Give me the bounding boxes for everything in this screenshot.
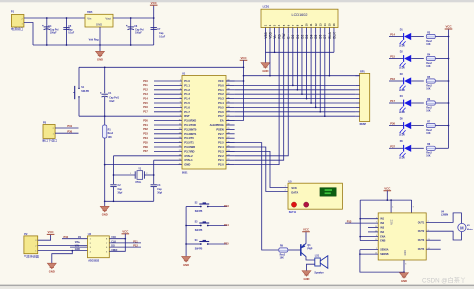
svg-text:ENB: ENB bbox=[380, 240, 385, 243]
svg-text:GND: GND bbox=[262, 69, 268, 73]
wire R9 to Q1 base bbox=[288, 249, 301, 251]
svg-text:Vout: Vout bbox=[105, 17, 111, 21]
wire SENSB bbox=[360, 253, 378, 255]
svg-text:VCC: VCC bbox=[111, 237, 116, 239]
svg-text:10uF: 10uF bbox=[109, 101, 115, 103]
wire OUT2 to motor bbox=[426, 231, 461, 240]
svg-text:SW-PB: SW-PB bbox=[81, 91, 89, 93]
svg-text:ALE/PROG: ALE/PROG bbox=[210, 123, 224, 127]
svg-text:RESP: RESP bbox=[360, 123, 367, 126]
svg-text:Res2: Res2 bbox=[426, 41, 432, 43]
wire R1 bottom down to ground bbox=[104, 138, 106, 206]
LED D2 bbox=[389, 58, 403, 60]
svg-text:P1.5: P1.5 bbox=[184, 101, 190, 105]
wire up to VCC bbox=[153, 5, 155, 18]
wire IN2 net bbox=[345, 222, 378, 224]
svg-text:1: 1 bbox=[285, 186, 286, 188]
svg-text:GND: GND bbox=[184, 163, 190, 167]
wire MCU P3.4 stub bbox=[154, 137, 182, 139]
wire speaker to ground bbox=[307, 264, 315, 270]
wire MCU P1.3 stub bbox=[154, 93, 182, 95]
wire MCU P3.0 stub bbox=[154, 120, 182, 122]
wire MCU right pin 34 stub bbox=[226, 106, 235, 108]
svg-text:P3.7/RD: P3.7/RD bbox=[184, 149, 194, 153]
svg-text:LED0: LED0 bbox=[399, 46, 406, 48]
wire LCD VDD to VCC rail bbox=[269, 33, 271, 75]
wire XTAL2 pin to C2 column bbox=[114, 155, 183, 157]
svg-text:P13: P13 bbox=[224, 204, 229, 208]
capacitor pol bbox=[44, 26, 50, 28]
svg-text:SW-PB: SW-PB bbox=[195, 211, 203, 213]
svg-text:Cap Pol1: Cap Pol1 bbox=[109, 98, 120, 100]
wire MCU right pin 22 stub bbox=[226, 159, 235, 161]
svg-text:SENSA: SENSA bbox=[380, 249, 389, 252]
svg-text:Res2: Res2 bbox=[426, 130, 432, 132]
svg-text:SW-PB: SW-PB bbox=[195, 248, 203, 250]
svg-text:GND: GND bbox=[102, 213, 108, 217]
wire MCU EA pin to VCC bbox=[226, 120, 244, 122]
wire P3 pin2 net P31 bbox=[55, 127, 78, 129]
svg-text:8051: 8051 bbox=[182, 172, 188, 175]
svg-text:P3.0/RXD: P3.0/RXD bbox=[184, 119, 196, 123]
wire MCU P1.0 stub bbox=[154, 80, 182, 82]
wire MCU P3.3 stub bbox=[154, 133, 182, 135]
crystal Y1 bbox=[114, 174, 136, 176]
svg-text:P11: P11 bbox=[133, 239, 138, 243]
wire MCU right pin 38 stub bbox=[226, 89, 235, 91]
wire MCU right pin 39 stub bbox=[226, 84, 235, 86]
wire RP1 pin 4 stub bbox=[355, 93, 359, 95]
svg-text:VIN-: VIN- bbox=[75, 246, 80, 248]
svg-text:P1.2: P1.2 bbox=[184, 88, 190, 92]
wire ADC VIN- stub bbox=[70, 246, 88, 248]
wire ground rail bbox=[33, 44, 154, 46]
wire LCD RS to MCU P2.0 bbox=[235, 33, 280, 164]
svg-text:P13: P13 bbox=[143, 92, 148, 96]
ground below reset bbox=[100, 206, 109, 212]
wire MCU right pin 30 stub bbox=[226, 124, 235, 126]
svg-text:7805: 7805 bbox=[87, 11, 93, 14]
svg-text:P2.0: P2.0 bbox=[218, 163, 224, 167]
resistor bbox=[426, 123, 435, 127]
svg-text:VCC: VCC bbox=[391, 219, 394, 224]
svg-text:LED0: LED0 bbox=[399, 68, 406, 70]
wire LCD ground rail bbox=[265, 51, 334, 53]
wire buttons common to ground bbox=[185, 207, 187, 257]
svg-text:P32: P32 bbox=[143, 127, 148, 131]
wire to MCU RST pin bbox=[105, 115, 182, 117]
svg-text:Res2: Res2 bbox=[280, 254, 286, 256]
svg-text:LED0: LED0 bbox=[399, 158, 406, 160]
svg-text:SCK: SCK bbox=[291, 186, 297, 190]
wire IN4 stub bbox=[368, 231, 378, 233]
wire MCU right pin 24 stub bbox=[226, 150, 235, 152]
wire MCU right pin 21 stub bbox=[226, 164, 235, 166]
svg-text:P15: P15 bbox=[224, 242, 229, 246]
svg-text:P15: P15 bbox=[143, 101, 148, 105]
wire OUT4 stub bbox=[426, 248, 441, 250]
svg-text:Res2: Res2 bbox=[426, 63, 432, 65]
wire 7805 Vout rail bbox=[113, 17, 154, 19]
wire P2 pin2 to ADC CH0 bbox=[38, 244, 88, 246]
wire RP1 pin 5 stub bbox=[355, 98, 359, 100]
svg-text:P11: P11 bbox=[143, 83, 148, 87]
svg-text:气体传感器: 气体传感器 bbox=[24, 254, 39, 259]
svg-text:P1.4: P1.4 bbox=[184, 97, 190, 101]
svg-text:P0.2: P0.2 bbox=[218, 92, 224, 96]
wire crystal ground rail bbox=[105, 200, 154, 202]
motor M1 bbox=[458, 223, 466, 231]
svg-text:P12: P12 bbox=[133, 244, 138, 248]
svg-text:10K: 10K bbox=[280, 258, 285, 260]
wire LED VCC rail bbox=[448, 29, 450, 148]
svg-text:VCC: VCC bbox=[151, 1, 158, 5]
wire OUT3 stub bbox=[426, 239, 441, 241]
svg-text:P0.7: P0.7 bbox=[218, 114, 224, 118]
wire LCD VL down bbox=[274, 33, 276, 52]
svg-text:P12: P12 bbox=[143, 88, 148, 92]
svg-text:串口下载口: 串口下载口 bbox=[42, 138, 57, 143]
svg-text:P0.5: P0.5 bbox=[218, 105, 224, 109]
wire ADC DO net P12 bbox=[109, 246, 141, 248]
svg-text:VCC: VCC bbox=[48, 230, 55, 234]
svg-text:P2.1: P2.1 bbox=[218, 158, 224, 162]
svg-text:P14: P14 bbox=[143, 96, 148, 100]
wire P1 pin1 down to ground rail bbox=[24, 23, 33, 46]
svg-text:0.1uF: 0.1uF bbox=[68, 33, 75, 35]
wire RP1 pin 6 stub bbox=[355, 102, 359, 104]
svg-text:EA: EA bbox=[220, 119, 224, 123]
svg-text:P0.0: P0.0 bbox=[218, 83, 224, 87]
wire MCU right pin 40 stub bbox=[226, 80, 235, 82]
capacitor C6 bbox=[130, 18, 132, 45]
svg-text:Cap: Cap bbox=[118, 189, 123, 191]
LED D1 bbox=[389, 36, 403, 38]
wire RP1 pin 9 stub bbox=[355, 115, 359, 117]
svg-text:10K: 10K bbox=[426, 44, 431, 46]
svg-text:GND: GND bbox=[75, 249, 80, 251]
svg-text:GND: GND bbox=[97, 58, 103, 62]
svg-text:LCD1602: LCD1602 bbox=[291, 13, 307, 17]
wire SENS to ground rail bbox=[360, 250, 404, 273]
wire MCU right pin 32 stub bbox=[226, 115, 235, 117]
ground below 7805 bbox=[96, 51, 105, 57]
svg-text:L298N: L298N bbox=[441, 214, 448, 217]
wire MCU P1.2 stub bbox=[154, 89, 182, 91]
svg-text:P0.1: P0.1 bbox=[218, 88, 224, 92]
svg-text:Volt Reg: Volt Reg bbox=[89, 38, 99, 41]
wire RP1 pin 3 stub bbox=[355, 89, 359, 91]
svg-text:OUT1: OUT1 bbox=[418, 221, 425, 224]
wire MCU P2.3 to SHT11 SCK bbox=[226, 151, 288, 187]
svg-text:P3.1/TXD: P3.1/TXD bbox=[184, 123, 196, 127]
switch S4 SW-PB bbox=[186, 243, 200, 245]
svg-text:CLK: CLK bbox=[111, 241, 116, 243]
svg-text:Motor: Motor bbox=[467, 228, 473, 231]
svg-text:0.1uF: 0.1uF bbox=[159, 36, 166, 38]
svg-text:P0.4: P0.4 bbox=[218, 101, 224, 105]
svg-text:LS1: LS1 bbox=[315, 255, 320, 258]
svg-text:GND: GND bbox=[96, 23, 102, 27]
wire P3 pin1 net P30 bbox=[55, 132, 78, 134]
svg-text:P31: P31 bbox=[143, 123, 148, 127]
wire P2 pin3 to VCC bbox=[38, 234, 51, 240]
svg-text:VCC: VCC bbox=[218, 79, 224, 83]
svg-text:VCC: VCC bbox=[445, 25, 452, 29]
LED D6 bbox=[389, 147, 403, 149]
svg-text:P1.6: P1.6 bbox=[184, 105, 190, 109]
capacitor bbox=[151, 184, 157, 186]
wire MCU P0.7 to LCD D7 and RP1 bbox=[235, 115, 356, 117]
capacitor C5 bbox=[66, 18, 68, 45]
svg-text:PNP: PNP bbox=[307, 248, 312, 251]
svg-text:P3.4/T0: P3.4/T0 bbox=[184, 136, 194, 140]
wire MCU right pin 28 stub bbox=[226, 133, 235, 135]
svg-text:10K: 10K bbox=[426, 88, 431, 90]
svg-text:RST: RST bbox=[184, 114, 190, 118]
resistor bbox=[426, 101, 435, 105]
svg-text:P1.1: P1.1 bbox=[184, 83, 190, 87]
svg-text:Res2: Res2 bbox=[426, 85, 432, 87]
svg-text:VREF: VREF bbox=[111, 250, 118, 252]
wire MCU P0.2 to LCD D2 and RP1 bbox=[235, 93, 356, 95]
wire ADC CS net P10 bbox=[62, 238, 88, 240]
wire MCU P2.5 to base resistor bbox=[226, 143, 279, 250]
svg-text:P3.6/WR: P3.6/WR bbox=[184, 145, 195, 149]
svg-text:CSDN @白茶丫: CSDN @白茶丫 bbox=[422, 276, 466, 284]
svg-text:P34: P34 bbox=[143, 136, 148, 140]
svg-text:P3.3/INT1: P3.3/INT1 bbox=[184, 132, 197, 136]
ground below speaker bbox=[302, 271, 311, 277]
svg-text:P2.5: P2.5 bbox=[218, 141, 224, 145]
svg-text:30pf: 30pf bbox=[118, 192, 123, 194]
capacitor pol bbox=[102, 93, 108, 95]
svg-text:P1: P1 bbox=[11, 10, 15, 14]
svg-text:GND: GND bbox=[49, 270, 55, 274]
wire MCU P3.7 stub bbox=[154, 150, 182, 152]
connector P1 power input bbox=[11, 15, 24, 28]
svg-text:4: 4 bbox=[392, 207, 393, 209]
wire driver GND pin down bbox=[403, 260, 405, 272]
resistor R1 bbox=[104, 116, 106, 125]
connector P3 serial download bbox=[43, 125, 55, 139]
resistor bbox=[279, 248, 288, 252]
resistor bbox=[426, 79, 435, 83]
svg-text:PSEN: PSEN bbox=[216, 127, 223, 131]
svg-text:P36: P36 bbox=[143, 145, 148, 149]
wire 7805 GND pin down bbox=[99, 27, 101, 45]
wire MCU right pin 26 stub bbox=[226, 142, 235, 144]
wire MCU P0.1 to LCD D1 and RP1 bbox=[235, 89, 356, 91]
svg-text:ENA: ENA bbox=[380, 236, 385, 239]
ground below driver bbox=[400, 273, 409, 279]
voltage regulator 7805 bbox=[85, 14, 113, 27]
svg-text:IN1: IN1 bbox=[380, 218, 384, 221]
ground below LCD bbox=[261, 63, 270, 69]
wire MCU P1.1 stub bbox=[154, 84, 182, 86]
svg-text:P2.2: P2.2 bbox=[218, 154, 224, 158]
wire reset node rail bbox=[79, 115, 105, 117]
wire LCD BLK down bbox=[333, 33, 335, 52]
svg-text:P17: P17 bbox=[143, 110, 148, 114]
wire MCU P3.6 stub bbox=[154, 146, 182, 148]
wire ENB bbox=[360, 240, 378, 242]
svg-text:P0.3: P0.3 bbox=[218, 97, 224, 101]
svg-text:ADC0832: ADC0832 bbox=[88, 260, 100, 263]
svg-text:P16: P16 bbox=[390, 77, 395, 81]
wire MCU P3.5 stub bbox=[154, 142, 182, 144]
wire to ground symbol bbox=[99, 45, 101, 51]
wire P1 pin2 to 7805 Vin (top rail) bbox=[24, 17, 85, 19]
svg-text:P17: P17 bbox=[390, 99, 395, 103]
svg-text:P1.3: P1.3 bbox=[184, 92, 190, 96]
svg-text:10K: 10K bbox=[426, 66, 431, 68]
switch S3 SW-PB bbox=[186, 225, 200, 227]
svg-text:XTAL2: XTAL2 bbox=[184, 154, 193, 158]
wire MCU P0.4 to LCD D4 and RP1 bbox=[235, 102, 356, 104]
svg-text:P2.6: P2.6 bbox=[218, 136, 224, 140]
svg-text:XTAL1: XTAL1 bbox=[184, 158, 193, 162]
wire MCU P0.3 to LCD D3 and RP1 bbox=[235, 98, 356, 100]
resistor bbox=[426, 146, 435, 150]
switch S1 SW-PB reset bbox=[78, 67, 80, 87]
wire MCU P2.4 to SHT11 DATA bbox=[226, 147, 288, 192]
svg-text:8: 8 bbox=[405, 264, 406, 266]
svg-text:XTAL: XTAL bbox=[135, 181, 142, 184]
svg-text:P33: P33 bbox=[143, 132, 148, 136]
LED D3 bbox=[389, 80, 403, 82]
svg-text:9: 9 bbox=[413, 207, 414, 209]
wire RP1 common pin bbox=[355, 75, 359, 77]
svg-text:100uF: 100uF bbox=[50, 33, 57, 35]
wire MCU P3.2 stub bbox=[154, 128, 182, 130]
svg-text:P15: P15 bbox=[390, 55, 395, 59]
wire IN3 stub bbox=[368, 227, 378, 229]
svg-text:P0.6: P0.6 bbox=[218, 110, 224, 114]
svg-text:10K: 10K bbox=[426, 110, 431, 112]
svg-text:VCC: VCC bbox=[240, 56, 247, 60]
svg-text:P1.7: P1.7 bbox=[184, 110, 190, 114]
svg-text:LED0: LED0 bbox=[399, 135, 406, 137]
wire MCU P1.4 stub bbox=[154, 98, 182, 100]
svg-text:P14: P14 bbox=[224, 223, 229, 227]
svg-text:GND: GND bbox=[183, 263, 189, 267]
wire down to crystal/C3 bbox=[153, 160, 155, 184]
wire MCU GND pin to ground column bbox=[105, 164, 182, 166]
svg-text:DO: DO bbox=[111, 246, 115, 248]
wire VCC rail above MCU bbox=[79, 66, 244, 68]
svg-text:OUT4: OUT4 bbox=[418, 248, 425, 251]
resistor bbox=[426, 56, 435, 60]
capacitor C1 reset bbox=[104, 67, 106, 93]
svg-text:GND: GND bbox=[304, 277, 310, 281]
wire LCD VSS down bbox=[264, 33, 266, 52]
wire sensor ground bbox=[52, 251, 73, 264]
capacitor C7 bbox=[153, 18, 155, 45]
wire MCU right pin 36 stub bbox=[226, 98, 235, 100]
svg-text:Speaker: Speaker bbox=[314, 271, 323, 274]
wire MCU right pin 27 stub bbox=[226, 137, 235, 139]
svg-text:Res2: Res2 bbox=[426, 107, 432, 109]
svg-text:LCD1: LCD1 bbox=[263, 6, 270, 9]
svg-text:Vin: Vin bbox=[87, 17, 91, 21]
wire down to crystal/C2 bbox=[113, 156, 115, 184]
wire MCU P1.5 stub bbox=[154, 102, 182, 104]
wire MCU P0.5 to LCD D5 and RP1 bbox=[235, 106, 356, 108]
svg-text:Cap Pol: Cap Pol bbox=[50, 30, 59, 32]
resistor bbox=[426, 34, 435, 38]
svg-text:P35: P35 bbox=[143, 140, 148, 144]
svg-text:P3.5/T1: P3.5/T1 bbox=[184, 141, 194, 145]
svg-text:100uF: 100uF bbox=[135, 33, 142, 35]
svg-text:4: 4 bbox=[285, 190, 286, 192]
svg-text:P31: P31 bbox=[67, 124, 72, 128]
IC U1 8051 microcontroller bbox=[182, 76, 226, 170]
wire ENA bbox=[360, 236, 378, 238]
svg-text:电源接口: 电源接口 bbox=[11, 26, 23, 31]
wire MCU right pin 29 stub bbox=[226, 128, 235, 130]
svg-text:Cap Pol: Cap Pol bbox=[135, 30, 144, 32]
wire IN1 to VCC bbox=[360, 218, 378, 220]
capacitor C4 bbox=[46, 18, 48, 45]
wire MCU right pin 23 stub bbox=[226, 155, 235, 157]
wire driver VCC rail bbox=[360, 199, 411, 201]
svg-text:IN2: IN2 bbox=[380, 222, 384, 225]
svg-text:10K: 10K bbox=[426, 133, 431, 135]
wire to ground under LCD bbox=[264, 52, 266, 62]
svg-text:P1.0: P1.0 bbox=[184, 79, 190, 83]
svg-text:10K: 10K bbox=[426, 156, 431, 158]
wire LCD RW to MCU P2.1 bbox=[235, 33, 284, 160]
wire RP1 pin 8 stub bbox=[355, 111, 359, 113]
svg-text:P30: P30 bbox=[143, 118, 148, 122]
wire LCD BLA to VCC rail bbox=[328, 33, 330, 75]
svg-text:Cap: Cap bbox=[68, 30, 73, 32]
svg-text:SENSB: SENSB bbox=[380, 253, 389, 256]
svg-text:P10: P10 bbox=[64, 235, 69, 239]
svg-text:P16: P16 bbox=[143, 105, 148, 109]
svg-text:OUT3: OUT3 bbox=[418, 239, 425, 242]
wire MCU P3.1 stub bbox=[154, 124, 182, 126]
svg-text:P3.2/INT0: P3.2/INT0 bbox=[184, 127, 197, 131]
svg-text:CS: CS bbox=[78, 237, 82, 239]
wire MCU P0.6 to LCD D6 and RP1 bbox=[235, 111, 356, 113]
capacitor pol bbox=[128, 26, 134, 28]
wire VCC to IN1/ENA/ENB bbox=[359, 200, 361, 241]
wire VCC to VREF bbox=[109, 234, 125, 252]
svg-text:P10: P10 bbox=[143, 79, 148, 83]
svg-text:P30: P30 bbox=[67, 129, 72, 133]
LED D4 bbox=[389, 102, 403, 104]
wire MCU right pin 37 stub bbox=[226, 93, 235, 95]
svg-text:SW-PB: SW-PB bbox=[195, 230, 203, 232]
svg-text:IN4: IN4 bbox=[380, 231, 384, 234]
wire Q1 emitter to VCC bbox=[305, 232, 307, 243]
svg-text:P14: P14 bbox=[390, 33, 395, 37]
wire RP1 pin 2 stub bbox=[355, 84, 359, 86]
wire MCU P0.0 to LCD D0 and RP1 bbox=[235, 84, 356, 86]
wire ADC VCC pin bbox=[109, 238, 125, 240]
wire Q1 collector to speaker bbox=[306, 257, 315, 260]
wire XTAL1 pin to C3 column bbox=[154, 159, 182, 161]
svg-text:10K: 10K bbox=[108, 137, 113, 139]
wire MCU P1.6 stub bbox=[154, 106, 182, 108]
wire SENSA bbox=[360, 249, 378, 251]
wire MCU right pin 33 stub bbox=[226, 111, 235, 113]
svg-text:P13: P13 bbox=[347, 219, 352, 223]
wire LCD E to MCU P2.2 bbox=[235, 33, 289, 156]
svg-text:VCC: VCC bbox=[122, 230, 129, 234]
